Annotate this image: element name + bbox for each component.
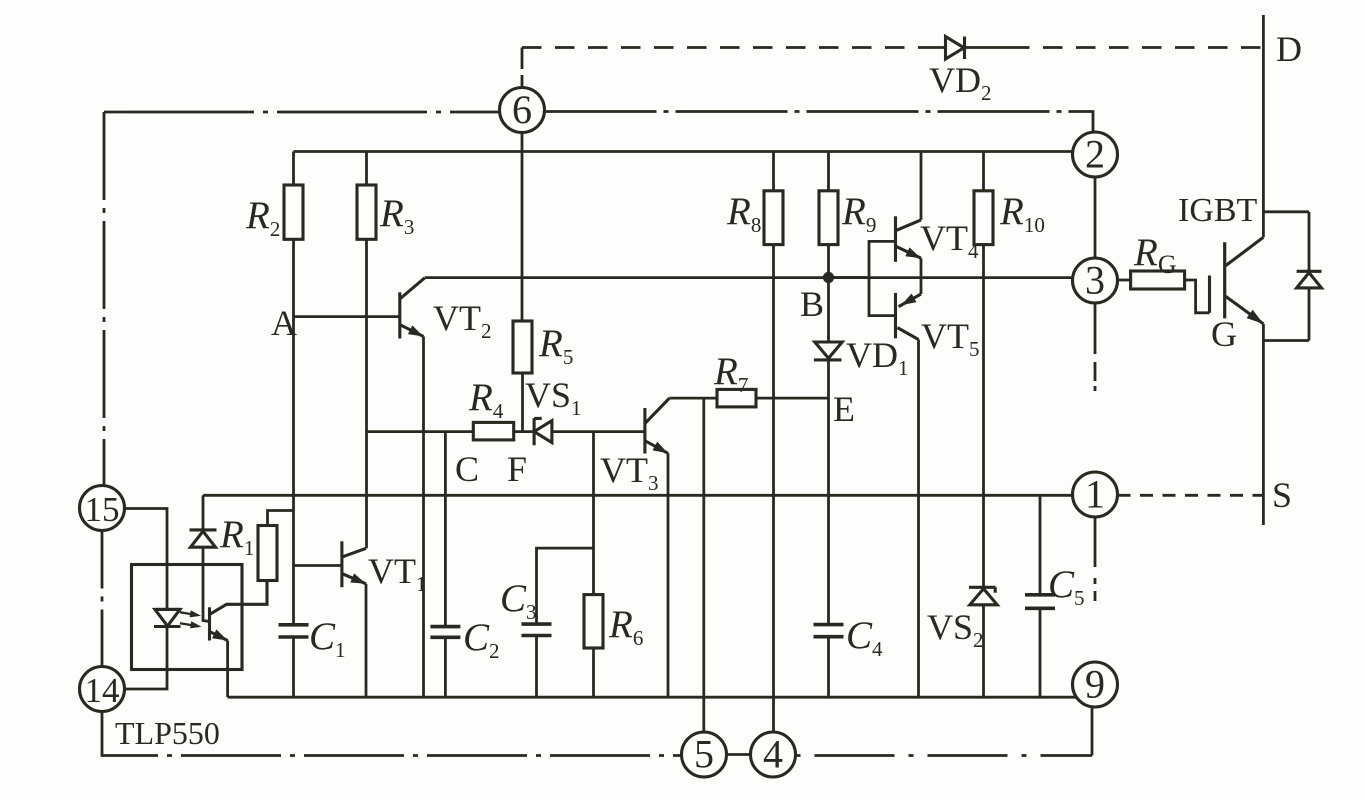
label IGBT: [1178, 192, 1258, 229]
svg-text:B: B: [800, 284, 824, 324]
zener VS2: [969, 587, 997, 605]
label R10: [999, 190, 1045, 237]
svg-text:R8: R8: [726, 190, 761, 237]
wire: R8 column down to pin 4: [772, 245, 775, 732]
wire: VT3 collector line to R7: [670, 397, 718, 400]
svg-text:RG: RG: [1133, 231, 1177, 279]
wire: pin 6 feed down to R5: [521, 133, 524, 322]
wire: R7 to node E on VD1 column: [756, 397, 829, 400]
label VD1: [846, 335, 909, 380]
wire: clamp diode to phototransistor base: [203, 547, 210, 621]
wire: VT1 base from C1 column: [294, 564, 342, 567]
zener VS1: [514, 418, 552, 445]
label TLP550: [115, 715, 220, 751]
wire: VT3 emitter to ground bus: [667, 453, 670, 697]
IGBT gate bar: [1208, 276, 1211, 313]
resistor RG: [1131, 271, 1185, 289]
label C3: [500, 577, 537, 624]
wire: IGBT emitter branch to freewheel diode: [1263, 339, 1309, 342]
label A: [271, 303, 297, 343]
wire: top boundary dash-dot left of pin 6: [104, 111, 500, 114]
wire: C3 top jog to R6 column: [537, 548, 594, 624]
wire: ground bus to pin 9: [228, 696, 1077, 699]
svg-text:1: 1: [1085, 472, 1105, 517]
wire: VD1 through node E down to C4: [827, 360, 830, 625]
label RG: [1133, 231, 1177, 279]
label VT3: [600, 450, 659, 495]
wire: C5 bottom to ground bus: [1039, 608, 1042, 697]
svg-text:VD1: VD1: [846, 335, 909, 380]
transistor VT5 (PNP): [896, 293, 922, 340]
diode VD2: [926, 37, 1010, 60]
wire: VT1 emitter to ground bus: [365, 584, 368, 697]
wire: RG to IGBT gate: [1185, 280, 1210, 313]
svg-text:E: E: [833, 389, 855, 429]
transistor VT2: [400, 278, 425, 339]
capacitor C3: [522, 624, 552, 635]
capacitor C2: [430, 627, 460, 638]
wire: LED cathode to pin 14: [125, 627, 168, 690]
svg-text:TLP550: TLP550: [115, 715, 220, 751]
label R7: [713, 350, 748, 397]
wire: bottom boundary dash-dot pin 4 to pin 9: [796, 754, 1093, 757]
LED inside optocoupler: [154, 609, 181, 626]
label C4: [846, 614, 883, 661]
capacitor C4: [814, 625, 844, 637]
svg-text:R6: R6: [608, 603, 643, 650]
wire: pin 15 lead to LED anode: [125, 509, 168, 610]
wire: C4 bottom to ground bus: [827, 637, 830, 698]
wire: IGBT collector branch to freewheel diode: [1263, 210, 1309, 213]
label R4: [468, 376, 504, 423]
label C2: [463, 616, 500, 663]
wire: link between pin 5 and pin 4: [727, 753, 751, 756]
label C: [455, 449, 479, 489]
label VS2: [927, 607, 984, 652]
freewheel diode across IGBT: [1297, 212, 1322, 341]
label R6: [608, 603, 643, 650]
svg-text:D: D: [1276, 29, 1302, 69]
svg-text:VT4: VT4: [920, 218, 979, 263]
resistor R8: [764, 152, 783, 245]
wire: node B down to VD1: [827, 278, 830, 343]
svg-text:R2: R2: [245, 194, 280, 241]
svg-text:A: A: [271, 303, 297, 343]
label D: [1276, 29, 1302, 69]
wire: R6 bottom to ground bus: [592, 648, 595, 697]
wire: pin 1 rail down to C5: [1039, 495, 1042, 595]
wire: node C down to C2: [444, 432, 447, 627]
wire: dashed riser from pin 6 to drain line: [521, 48, 524, 88]
wire: R5 bottom to node F: [521, 373, 524, 432]
wire: emitter rail to pin 1: [203, 494, 1073, 497]
pin 4: [751, 732, 796, 778]
svg-text:5: 5: [694, 732, 714, 777]
resistor R2: [284, 152, 303, 240]
wire: right boundary dash-dot pin 1 to pin 9: [1094, 517, 1097, 601]
label VT4: [920, 218, 979, 263]
svg-text:C4: C4: [846, 614, 883, 661]
pin 6: [500, 87, 545, 133]
svg-text:9: 9: [1085, 662, 1105, 707]
svg-text:6: 6: [512, 87, 532, 132]
wire: VS2 to ground bus: [982, 605, 985, 697]
wire: positive rail pin6/pin2: [294, 150, 1074, 153]
wire: bottom-right boundary riser to pin 9: [1091, 707, 1094, 756]
resistor R1: [258, 526, 277, 581]
label E: [833, 389, 855, 429]
svg-text:IGBT: IGBT: [1178, 192, 1258, 229]
svg-text:R9: R9: [841, 190, 876, 237]
wire: pin 3 to RG: [1118, 279, 1131, 282]
wire: IGBT emitter lead to terminal S: [1262, 324, 1265, 525]
wire: right boundary dash-dot pin 3 to pin 1: [1094, 303, 1097, 391]
svg-text:C: C: [455, 449, 479, 489]
svg-text:VT1: VT1: [368, 551, 427, 596]
capacitor C1: [279, 625, 309, 637]
wire: left boundary dash-dot upper: [103, 112, 106, 486]
wire: R3 column down to VT1 collector: [365, 239, 368, 548]
svg-text:R4: R4: [468, 376, 504, 423]
svg-text:R10: R10: [999, 190, 1045, 237]
optocoupler TLP550 package outline: [132, 565, 243, 670]
resistor R10: [974, 152, 993, 245]
svg-text:R3: R3: [379, 192, 414, 239]
wire: R2 column through node A down to R1 jog and C1: [292, 239, 295, 625]
svg-text:4: 4: [763, 732, 783, 777]
resistor R3: [357, 152, 376, 240]
pin 15: [80, 486, 125, 531]
node B junction dot: [823, 272, 834, 283]
wire: C2 bottom to ground bus: [444, 637, 447, 697]
transistor VT4: [896, 216, 922, 261]
label C1: [309, 615, 346, 662]
svg-text:S: S: [1272, 475, 1292, 515]
wire: R1 top jog to R2 column: [268, 511, 294, 526]
svg-text:F: F: [507, 449, 527, 489]
label C5: [1048, 563, 1085, 610]
wire: IGBT drain lead (terminal D): [1262, 15, 1265, 237]
transistor VT1: [342, 541, 366, 587]
wire: dashed drain line VD2 to D terminal: [1010, 46, 1263, 49]
svg-text:VD2: VD2: [929, 60, 992, 105]
svg-text:R1: R1: [219, 513, 254, 560]
label VT2: [433, 298, 492, 343]
label G: [1211, 314, 1237, 354]
label R5: [538, 322, 573, 369]
label R2: [245, 194, 280, 241]
wire: node A base line to VT2: [294, 315, 400, 318]
label B: [800, 284, 824, 324]
diode: input clamp diode above optocoupler: [190, 495, 217, 547]
svg-text:VT2: VT2: [433, 298, 492, 343]
label S: [1272, 475, 1292, 515]
label VT1: [368, 551, 427, 596]
label VT5: [921, 316, 980, 361]
phototransistor of optocoupler: [210, 581, 268, 641]
wire: R10 column down to VS2: [982, 245, 985, 588]
resistor R5: [513, 321, 532, 373]
svg-text:VT5: VT5: [921, 316, 980, 361]
wire: R6 top lead from VT3 base line: [592, 432, 595, 595]
resistor R7: [717, 389, 756, 407]
wire: phototransistor emitter to ground bus: [226, 641, 229, 698]
svg-text:C3: C3: [500, 577, 537, 624]
pin 3: [1073, 258, 1118, 304]
resistor R9: [819, 152, 838, 245]
svg-text:R7: R7: [713, 350, 748, 397]
wire: VT4 emitter junction to output rail: [920, 258, 923, 294]
wire: right boundary pin 2 to pin 3: [1094, 177, 1097, 258]
wire: VT2 emitter column to ground bus: [422, 337, 425, 698]
svg-text:VT3: VT3: [600, 450, 659, 495]
label R3: [379, 192, 414, 239]
svg-text:2: 2: [1085, 132, 1105, 177]
pin 9: [1073, 662, 1118, 708]
svg-text:VS2: VS2: [927, 607, 984, 652]
wire: R7 node down to pin 5: [702, 398, 705, 732]
wire: node C line from R3 column to R4: [367, 430, 474, 433]
IGBT body bar and collector/emitter: [1225, 237, 1264, 324]
wire: VT2 collector rail to pin 3 (through node B): [425, 276, 1073, 279]
wire: left boundary dash-dot between pins 15 and 14: [101, 531, 104, 667]
capacitor C5: [1025, 595, 1055, 609]
wire: C3 bottom to ground bus: [535, 636, 538, 698]
svg-text:G: G: [1211, 314, 1237, 354]
pin 2: [1073, 132, 1118, 178]
wire: C1 bottom to ground bus: [292, 637, 295, 697]
resistor R4: [473, 422, 513, 440]
svg-text:VS1: VS1: [525, 375, 582, 420]
wire: top boundary dash-dot pin 6 to pin 2: [545, 112, 1094, 133]
svg-text:14: 14: [85, 671, 120, 710]
wire: left-bottom boundary dash-dot pin 14 to pin 5: [102, 712, 682, 756]
svg-text:C2: C2: [463, 616, 500, 663]
pin 5: [682, 732, 727, 778]
svg-text:C1: C1: [309, 615, 346, 662]
wire: VT4 collector feed from rail: [920, 152, 923, 220]
label R8: [726, 190, 761, 237]
svg-text:C5: C5: [1048, 563, 1085, 610]
label R9: [841, 190, 876, 237]
wire: node B to base bracket: [829, 276, 870, 279]
label VD2: [929, 60, 992, 105]
light arrows LED to phototransistor: [180, 610, 202, 628]
pin 14: [80, 667, 125, 712]
wire: node F to VT3 base: [552, 430, 645, 433]
diode VD1: [814, 342, 842, 360]
wire: R9 to node B: [827, 245, 830, 278]
wire: base bracket of VT4/VT5: [869, 241, 896, 315]
label R1: [219, 513, 254, 560]
wire: dashed source link pin 1 to S: [1118, 494, 1264, 497]
transistor VT3: [645, 398, 670, 453]
svg-text:15: 15: [85, 490, 120, 529]
wire: VT5 collector to ground bus: [917, 340, 920, 698]
label F: [507, 449, 527, 489]
label VS1: [525, 375, 582, 420]
svg-text:R5: R5: [538, 322, 573, 369]
svg-text:3: 3: [1085, 258, 1105, 303]
pin 1: [1073, 472, 1118, 518]
wire: dashed drain line left of VD2: [522, 46, 926, 49]
resistor R6: [584, 595, 603, 648]
